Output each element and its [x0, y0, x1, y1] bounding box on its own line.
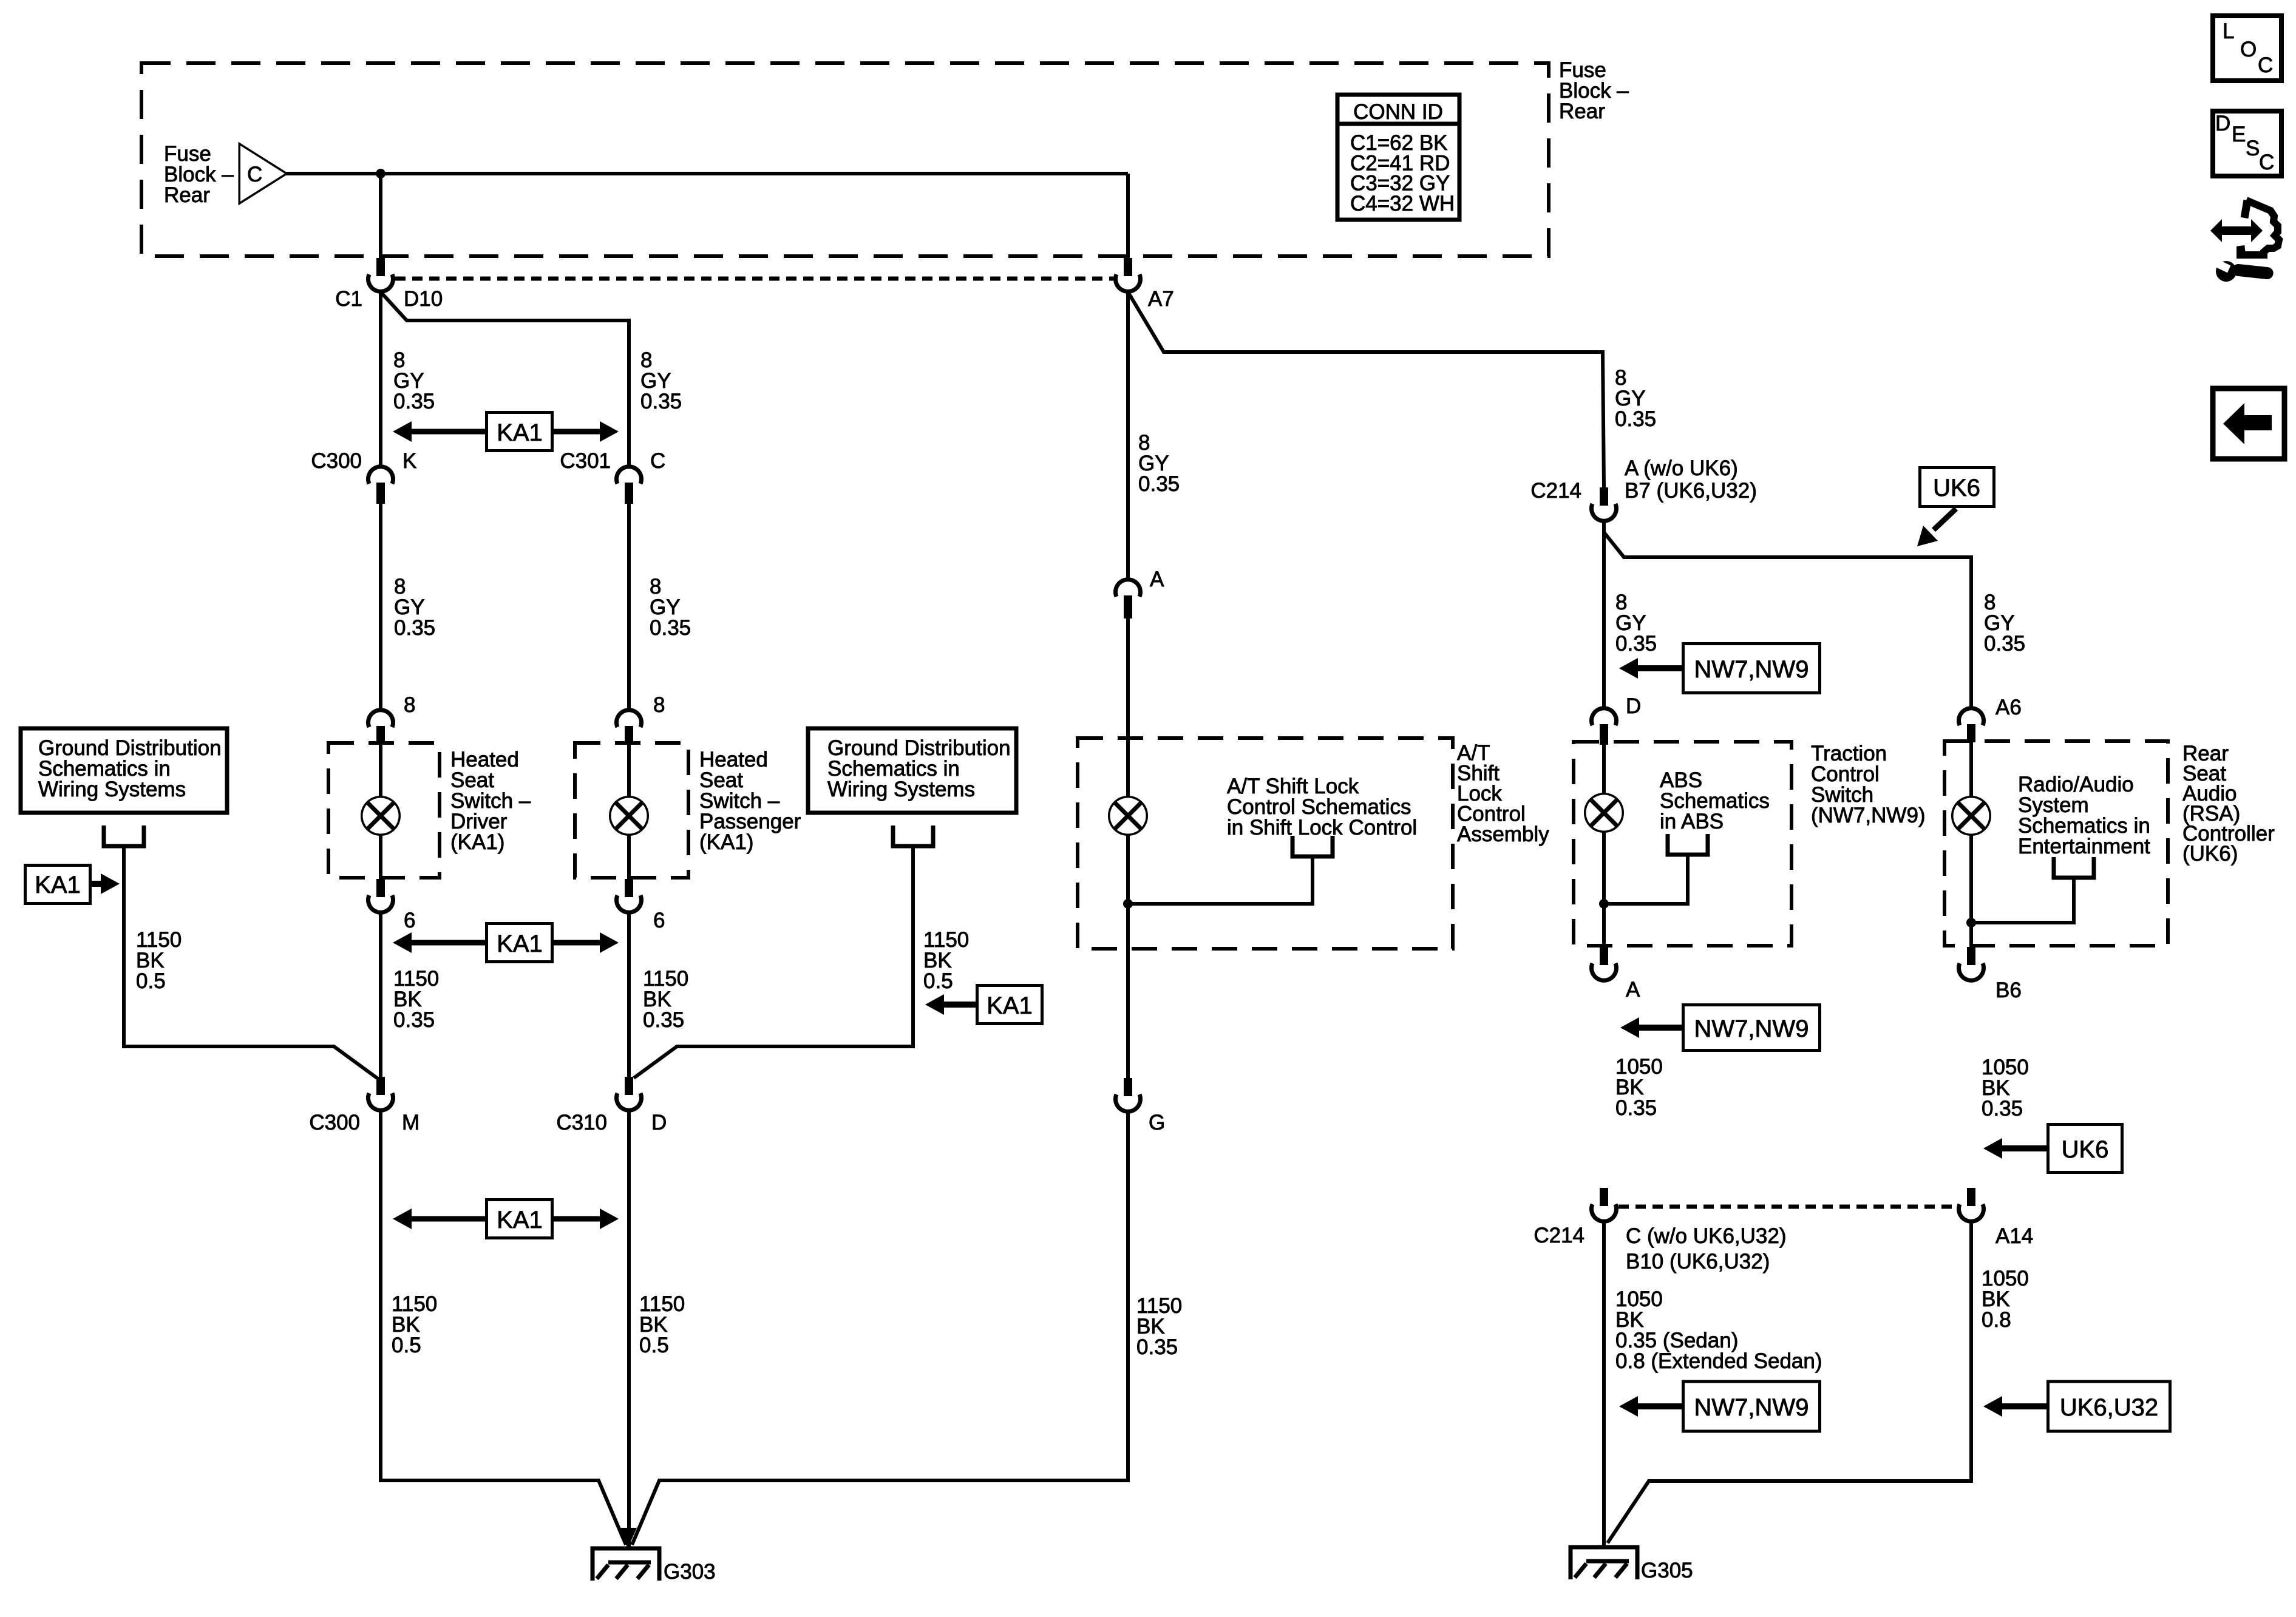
svg-text:UK6: UK6: [2062, 1136, 2109, 1163]
svg-text:NW7,NW9: NW7,NW9: [1694, 656, 1809, 683]
svg-text:0.5: 0.5: [923, 969, 953, 993]
svg-text:C214: C214: [1533, 1224, 1584, 1247]
svg-text:6: 6: [653, 909, 665, 932]
svg-text:0.8 (Extended Sedan): 0.8 (Extended Sedan): [1615, 1349, 1822, 1373]
svg-text:0.35: 0.35: [640, 390, 682, 413]
svg-text:D: D: [1626, 694, 1641, 718]
svg-text:0.35: 0.35: [393, 390, 435, 413]
svg-text:8: 8: [404, 693, 415, 717]
svg-text:G305: G305: [1641, 1559, 1693, 1582]
svg-text:C: C: [247, 163, 262, 186]
svg-text:UK6,U32: UK6,U32: [2060, 1394, 2158, 1421]
svg-text:B10 (UK6,U32): B10 (UK6,U32): [1626, 1250, 1770, 1273]
svg-text:0.5: 0.5: [136, 969, 166, 993]
svg-text:C301: C301: [560, 449, 611, 473]
svg-text:A: A: [1150, 568, 1164, 591]
svg-text:D: D: [2215, 112, 2230, 135]
svg-text:D: D: [651, 1111, 667, 1134]
svg-text:6: 6: [404, 909, 415, 932]
svg-text:C: C: [2259, 151, 2274, 174]
svg-text:KA1: KA1: [987, 992, 1033, 1019]
svg-text:KA1: KA1: [497, 419, 543, 446]
svg-text:0.35: 0.35: [1615, 1096, 1657, 1120]
svg-text:C (w/o UK6,U32): C (w/o UK6,U32): [1626, 1224, 1787, 1248]
svg-text:C300: C300: [311, 449, 362, 473]
svg-text:D10: D10: [404, 287, 443, 311]
svg-text:0.5: 0.5: [392, 1334, 421, 1357]
svg-text:0.35: 0.35: [650, 616, 691, 640]
svg-text:Rear: Rear: [1559, 100, 1605, 123]
svg-text:0.35: 0.35: [1982, 1097, 2023, 1120]
svg-text:C: C: [650, 449, 665, 473]
svg-text:(KA1): (KA1): [699, 830, 753, 854]
svg-text:G: G: [1149, 1111, 1165, 1134]
svg-text:KA1: KA1: [497, 931, 543, 957]
svg-text:Wiring Systems: Wiring Systems: [827, 778, 975, 801]
svg-text:K: K: [402, 449, 416, 473]
svg-text:0.35: 0.35: [1984, 632, 2025, 656]
svg-text:C: C: [2258, 53, 2273, 77]
svg-text:0.8: 0.8: [1982, 1308, 2011, 1332]
svg-text:UK6: UK6: [1933, 475, 1980, 501]
svg-text:CONN ID: CONN ID: [1353, 100, 1443, 124]
svg-text:C300: C300: [309, 1111, 360, 1134]
svg-text:0.35: 0.35: [643, 1008, 684, 1032]
svg-text:A14: A14: [1995, 1224, 2033, 1248]
svg-text:0.35: 0.35: [394, 616, 435, 640]
svg-text:A6: A6: [1995, 696, 2022, 719]
svg-text:A7: A7: [1148, 287, 1174, 311]
svg-text:L: L: [2223, 19, 2234, 43]
svg-text:A: A: [1626, 978, 1640, 1002]
svg-text:C214: C214: [1530, 479, 1581, 503]
svg-text:(KA1): (KA1): [450, 830, 504, 854]
svg-text:B6: B6: [1995, 978, 2022, 1002]
svg-text:0.35: 0.35: [1615, 632, 1657, 656]
svg-text:E: E: [2232, 123, 2246, 146]
svg-text:0.35: 0.35: [1138, 472, 1180, 496]
svg-text:M: M: [402, 1111, 419, 1134]
svg-text:S: S: [2246, 137, 2260, 160]
svg-text:NW7,NW9: NW7,NW9: [1694, 1015, 1809, 1042]
svg-text:O: O: [2240, 38, 2257, 61]
svg-text:0.35: 0.35: [393, 1008, 435, 1032]
svg-text:in ABS: in ABS: [1660, 810, 1724, 833]
svg-text:Rear: Rear: [164, 183, 210, 207]
svg-text:KA1: KA1: [35, 872, 81, 898]
svg-text:in Shift Lock Control: in Shift Lock Control: [1227, 816, 1417, 839]
svg-text:NW7,NW9: NW7,NW9: [1694, 1394, 1809, 1421]
svg-text:0.35: 0.35: [1136, 1335, 1178, 1359]
svg-text:(NW7,NW9): (NW7,NW9): [1811, 804, 1926, 827]
svg-text:C4=32 WH: C4=32 WH: [1350, 192, 1455, 215]
svg-text:Assembly: Assembly: [1457, 822, 1549, 846]
svg-text:C310: C310: [556, 1111, 607, 1134]
svg-text:(UK6): (UK6): [2182, 842, 2238, 866]
svg-text:0.5: 0.5: [639, 1334, 669, 1357]
svg-text:KA1: KA1: [497, 1207, 543, 1233]
svg-text:8: 8: [653, 693, 665, 717]
svg-text:G303: G303: [664, 1560, 716, 1584]
svg-text:Wiring Systems: Wiring Systems: [38, 778, 186, 801]
svg-text:0.35: 0.35: [1615, 407, 1656, 431]
svg-text:B7 (UK6,U32): B7 (UK6,U32): [1625, 479, 1757, 503]
svg-text:A (w/o UK6): A (w/o UK6): [1625, 456, 1738, 480]
svg-text:C1: C1: [335, 287, 362, 311]
svg-text:Entertainment: Entertainment: [2018, 835, 2150, 858]
